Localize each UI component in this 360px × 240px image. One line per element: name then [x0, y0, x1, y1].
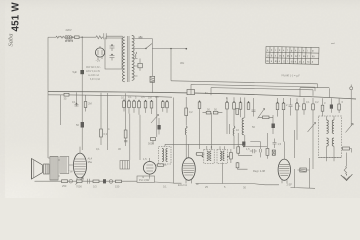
resistor R12: [145, 100, 146, 101]
coil L2 vertical: [242, 118, 244, 135]
coil L6: [162, 149, 164, 162]
component X1: [272, 150, 275, 155]
bottom chain from speaker: [35, 180, 138, 182]
resistor R3 hatched below x152: [150, 76, 155, 82]
resistor R34 vertical: [230, 153, 233, 160]
wire vertical x171: [170, 49, 172, 81]
wire secondary taps: [134, 39, 147, 77]
coil L5 in can: [332, 120, 334, 133]
capacitor C12 chain: [88, 179, 90, 184]
node cluster x76-92: [76, 103, 78, 105]
IF can 1 (dashed): [159, 147, 172, 165]
capacitor C13 filled: [103, 179, 106, 183]
IF can 3 coils: [217, 150, 227, 164]
wire secondary top to x152: [138, 39, 152, 77]
wire top feedback line: [152, 48, 186, 50]
rectifier tube circle: [95, 48, 104, 57]
wire vertical x107.5: [107, 93, 109, 150]
wire bracket 1: [171, 81, 318, 88]
tube ECH11: [182, 158, 195, 181]
resistor R13b: [162, 100, 163, 101]
wire vertical x173.5: [173, 98, 175, 184]
resistor R20: [248, 101, 249, 102]
fuse bottom right: [344, 153, 346, 174]
fuse Si1: [56, 36, 60, 38]
field coil box: [60, 157, 69, 174]
coil L13 on x234: [233, 126, 235, 136]
resistor R23: [283, 102, 284, 103]
coil L9: [210, 151, 211, 161]
coil L7: [166, 149, 168, 162]
coil L11: [223, 151, 224, 161]
speaker coil box: [44, 164, 50, 174]
wire vertical x140 long: [139, 115, 141, 160]
potentiometer arrow P1: [151, 115, 159, 124]
resistor R27: [338, 104, 341, 110]
wire bracket 2: [191, 84, 315, 94]
voltage selector comb: [65, 36, 74, 42]
wire vertical x186 to tube: [185, 135, 187, 158]
resistor R24: [296, 102, 297, 103]
resistor R38: [237, 147, 240, 153]
capacitor C4 pair small: [139, 36, 143, 38]
resistor R22: [277, 102, 278, 103]
resistor R28 bottom right: [343, 147, 350, 150]
capacitor C14: [273, 139, 277, 149]
resistor R17: [226, 101, 227, 102]
coil L10: [220, 151, 222, 161]
fuse Si2: [60, 36, 64, 38]
resistor R11: [138, 100, 139, 101]
resistor R13: [151, 100, 152, 101]
loudspeaker cone: [32, 159, 43, 180]
resistor R14 mid: [185, 108, 188, 116]
wires in can: [327, 116, 335, 161]
wire vertical x238: [237, 133, 239, 155]
pin circle: [69, 179, 73, 183]
resistor R19: [240, 101, 241, 102]
box component left of eye tube: [120, 161, 130, 170]
wires below resistor row: [124, 108, 152, 115]
resistor R9: [128, 100, 129, 101]
resistor R31 chain: [116, 180, 122, 183]
trimmer T1 arrow: [308, 123, 316, 133]
box around caps: [105, 38, 122, 69]
wire bus A: [48, 92, 356, 99]
wires bottom center: [174, 163, 253, 184]
wire primary top to mains: [96, 36, 123, 37]
output tube AL4: [73, 153, 86, 178]
wires near EF9: [252, 169, 315, 188]
title Saba 451W rotated: [8, 2, 22, 47]
resistor R18: [233, 101, 234, 102]
resistor R16b: [213, 111, 218, 114]
resistor R10: [133, 100, 134, 101]
resistor R29 chain: [62, 180, 68, 183]
wire vertical x156.8: [156, 96, 158, 137]
capacitor C7 filled: [158, 125, 161, 130]
wire vertical x60.5: [60, 95, 62, 125]
tube EM (circle): [143, 162, 156, 175]
ground symbol: [341, 174, 353, 181]
resistor R37 small: [236, 109, 239, 115]
capacitor C1 blob on x82: [80, 70, 84, 74]
transformer Tr1 secondary winding: [132, 36, 134, 81]
switch S2 diagonal: [146, 44, 152, 49]
capacitor C9 filled: [272, 124, 275, 129]
wire horizontals cluster: [238, 146, 267, 155]
resistor R4 on bus: [64, 93, 69, 96]
wire bracket 3: [211, 88, 313, 96]
capacitor C15 blob: [242, 142, 245, 146]
terminal TB top right: [350, 87, 353, 90]
resistor R6 x101: [100, 93, 102, 129]
resistor R36 horizontal hatched: [300, 168, 307, 172]
capacitor C8: [252, 98, 256, 117]
potentiometer P3 arrow: [258, 109, 265, 119]
resistor R13c: [166, 100, 167, 101]
box right section verticals: [300, 88, 329, 98]
resistor R35: [266, 149, 269, 156]
pin circle 2: [109, 180, 113, 184]
resistor R26 with trimmer: [312, 104, 315, 110]
wire x227 pair down: [227, 117, 229, 134]
resistor R33: [197, 153, 203, 156]
IF can 2 coils: [204, 150, 214, 164]
wires speaker connections: [48, 150, 73, 176]
resistor R32 near eye: [158, 164, 164, 167]
box component PH: [137, 176, 155, 182]
resistor R2 on tap: [138, 63, 142, 67]
resistor R39: [236, 163, 239, 168]
wire vertical x309.5: [309, 158, 311, 188]
capacitor C16 bars: [250, 149, 257, 153]
wire vertical x48 left rail: [47, 37, 49, 150]
cluster block: [151, 138, 156, 141]
fuse Si3: [96, 36, 103, 39]
resistor small on mains: [75, 36, 80, 39]
capacitor C17 bars: [259, 142, 261, 153]
wire to transformer: [73, 36, 96, 38]
resistor R30 chain: [93, 180, 99, 183]
wire vertical x211.6: [211, 113, 213, 149]
transformer Tr1 primary winding: [123, 37, 125, 82]
wire vertical x313 lower: [312, 124, 314, 169]
resistor R5: [84, 102, 87, 108]
tube EF9: [278, 159, 290, 180]
component box on bus: [187, 90, 195, 95]
capacitor C2: [110, 46, 115, 51]
switch contacts: [104, 33, 110, 39]
coil L12 on x186: [185, 126, 187, 135]
resistor R7 x125 vertical: [125, 93, 127, 130]
resistor R25: [303, 104, 306, 110]
capacitor C5: [75, 105, 79, 107]
wire vertical x260.5: [250, 142, 260, 158]
capacitor C11 filled: [330, 105, 333, 109]
coil L3 pair: [322, 98, 324, 105]
capacitor C10: [289, 98, 293, 116]
IF can (dashed box right): [319, 116, 342, 158]
electrolytic C6 on x82: [81, 93, 83, 122]
resistor R15: [199, 101, 200, 102]
wire vertical x82 with cap: [81, 37, 83, 92]
resistor R8: [123, 100, 124, 101]
capacitor C3: [110, 56, 115, 61]
coil L8: [207, 151, 209, 161]
junction dot x82: [82, 37, 83, 38]
transformer Tr1 core: [128, 36, 129, 82]
filament text block: [86, 66, 101, 81]
wire can bottom: [319, 157, 342, 159]
coil L1 small: [135, 52, 137, 58]
output transformer hatched: [50, 157, 58, 181]
resistor R21: [263, 116, 270, 119]
stray mark: [331, 42, 335, 45]
coil L4 in can: [327, 120, 329, 133]
potentiometer P2 arrow: [76, 178, 84, 185]
wire bus B: [48, 95, 172, 97]
wire mains line: [48, 36, 56, 38]
resistor R16a: [206, 111, 211, 114]
trimmer T2 arrow right: [346, 124, 354, 133]
wire vertical x129.8 long: [129, 114, 131, 160]
